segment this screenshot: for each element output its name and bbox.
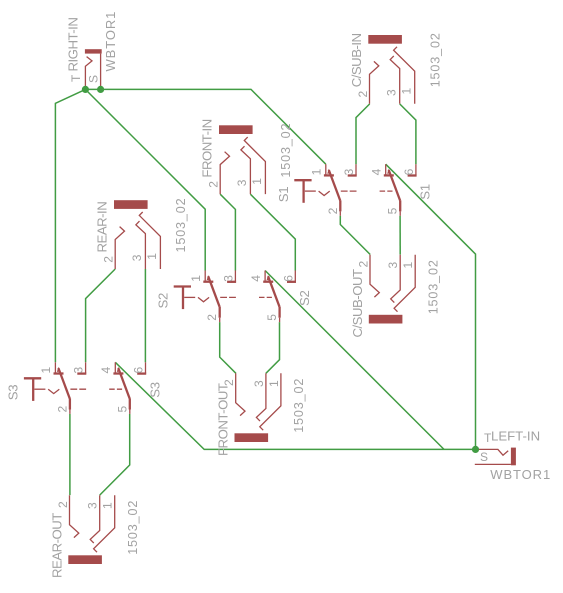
X-FRONT-OUT pin 3 (256, 373, 266, 421)
svg-text:2: 2 (356, 261, 370, 268)
wire: S1 pin 2 to C/SUB-OUT pin 2 (340, 216, 370, 255)
svg-text:1: 1 (250, 178, 264, 185)
svg-text:1: 1 (267, 380, 281, 387)
svg-text:T: T (69, 74, 83, 82)
connector WBTOR1 (LEFT-IN) body bar (511, 448, 516, 466)
svg-text:3: 3 (72, 367, 86, 374)
switch S2 pin 4 (264, 271, 266, 281)
X-FRONT-IN pin 2 (220, 152, 229, 194)
wire: S2 pin 5 to FRONT-OUT pin 3 (266, 322, 280, 373)
switch S1 pin 6 (415, 164, 417, 175)
svg-text:FRONT-IN: FRONT-IN (200, 119, 215, 177)
svg-text:6: 6 (402, 168, 416, 175)
X-CSUB-IN pin 1 (394, 47, 415, 104)
connector X-REAR-OUT (REAR-OUT) body bar (68, 555, 102, 564)
svg-text:T: T (484, 431, 492, 445)
wire: RIGHT-IN bus to S1 pin 1 (horizontal then diagonal) (85, 89, 325, 164)
svg-text:2: 2 (207, 181, 221, 188)
X-FRONT-IN pin 1 (244, 137, 265, 194)
X-FRONT-OUT pin 2 (236, 373, 245, 415)
wire: C/SUB-IN pin 2 to S1 pin 3 (356, 104, 370, 164)
connector X-FRONT-OUT (FRONT-OUT) body bar (235, 433, 269, 442)
svg-text:1503_02: 1503_02 (292, 378, 306, 433)
svg-text:4: 4 (99, 367, 113, 374)
switch S1 lever (1-2) (329, 170, 340, 201)
switch S1 pin 3 (355, 164, 357, 175)
svg-text:2: 2 (102, 256, 116, 263)
svg-text:1: 1 (401, 262, 415, 269)
switch S2 pin 2 (pole) (219, 307, 221, 318)
wire: S1 pin 4 to LEFT-IN junction (386, 164, 476, 449)
svg-text:2: 2 (56, 501, 70, 508)
svg-text:S2: S2 (155, 293, 170, 309)
RIGHT-IN pin T contact (85, 57, 92, 90)
switch S3 actuator T bar (24, 377, 41, 379)
switch S2 actuator T bar (174, 285, 191, 287)
wire: RIGHT-IN to S2 pin 1 (85, 89, 205, 270)
switch S1 pin 5 (pole) (399, 200, 401, 211)
X-CSUB-OUT pin 1 (394, 255, 415, 312)
svg-text:4: 4 (369, 168, 383, 175)
X-REAR-OUT pin 1 (94, 495, 115, 552)
svg-text:RIGHT-IN: RIGHT-IN (66, 18, 81, 72)
wire: S3 pin 4 to LEFT-IN junction (diagonal + horizontal) (115, 362, 475, 449)
svg-text:S1: S1 (418, 184, 433, 200)
switch S3 pin 5 (pole) (129, 399, 131, 410)
X-CSUB-IN pin 2 (370, 61, 379, 103)
svg-text:6: 6 (132, 367, 146, 374)
svg-text:5: 5 (115, 406, 129, 413)
svg-text:C/SUB-OUT: C/SUB-OUT (350, 269, 365, 337)
X-CSUB-OUT pin 2 (370, 255, 379, 297)
svg-text:1503_02: 1503_02 (126, 500, 140, 555)
wire: RIGHT-IN to S3 pin 1 (55, 89, 85, 362)
svg-text:3: 3 (386, 262, 400, 269)
switch S3 pin 4 (114, 362, 116, 372)
svg-text:REAR-OUT: REAR-OUT (50, 513, 65, 578)
svg-text:S3: S3 (147, 382, 162, 398)
junction dot at RIGHT-IN T (82, 86, 89, 93)
X-FRONT-OUT pin 1 (260, 373, 281, 430)
switch S3 pin 3 (85, 362, 87, 373)
X-CSUB-IN pin 3 (390, 56, 400, 104)
svg-text:WBTOR1: WBTOR1 (103, 11, 118, 72)
connector X-CSUB-OUT (C/SUB-OUT) body bar (369, 315, 403, 324)
svg-text:2: 2 (55, 406, 69, 413)
svg-text:6: 6 (281, 275, 295, 282)
switch S3 coupling link (dashed) (34, 388, 45, 390)
switch S1 lever (4-5) (389, 170, 400, 201)
svg-text:1503_02: 1503_02 (279, 123, 293, 178)
svg-text:C/SUB-IN: C/SUB-IN (349, 33, 364, 87)
svg-text:WBTOR1: WBTOR1 (490, 467, 551, 482)
switch S1 pin 1 (325, 164, 327, 174)
switch S3 lever (1-2) (58, 368, 69, 399)
svg-text:S: S (480, 450, 488, 464)
svg-text:REAR-IN: REAR-IN (95, 202, 110, 253)
wire: S3 pin 2 to REAR-OUT pin 2 (69, 414, 71, 495)
connector WBTOR1 (RIGHT-IN) body bar (85, 49, 102, 53)
RIGHT-IN pin S (100, 54, 102, 90)
connector X-FRONT-IN (FRONT-IN) body bar (219, 125, 253, 134)
switch S3 pin 6 (145, 362, 147, 373)
svg-text:S2: S2 (297, 290, 312, 306)
svg-text:3: 3 (235, 179, 249, 186)
svg-text:S3: S3 (6, 385, 21, 401)
X-REAR-OUT pin 2 (70, 495, 79, 537)
X-REAR-IN pin 1 (139, 212, 160, 269)
wire: S3 pin 5 to REAR-OUT pin 3 (100, 414, 130, 495)
wire: FRONT-IN pin 2 to S2 pin 3 (220, 194, 235, 270)
wire: REAR-IN pin 2 to S3 pin 3 (86, 269, 116, 362)
svg-text:1: 1 (310, 168, 324, 175)
LEFT-IN pin T contact (476, 449, 508, 455)
X-FRONT-IN pin 3 (241, 146, 251, 194)
switch S2 pin 3 (234, 271, 236, 282)
svg-text:LEFT-IN: LEFT-IN (491, 429, 540, 444)
wire: FRONT-IN pin 3 to S2 pin 6 (250, 194, 295, 270)
svg-text:1: 1 (145, 253, 159, 260)
X-REAR-OUT pin 3 (90, 495, 100, 543)
connector X-CSUB-IN (C/SUB-IN) body bar (368, 35, 402, 44)
junction dot at RIGHT-IN S (97, 86, 104, 93)
switch S2 pin 1 (204, 271, 206, 281)
wire: C/SUB-IN pin 3 to S1 pin 6 (400, 104, 416, 164)
svg-text:3: 3 (86, 502, 100, 509)
svg-text:1: 1 (39, 367, 53, 374)
switch S1 actuator T bar (294, 179, 311, 181)
svg-text:1: 1 (400, 88, 414, 95)
svg-text:FRONT-OUT: FRONT-OUT (216, 383, 231, 456)
junction dot at LEFT-IN (472, 446, 479, 453)
wire: S2 pin 4 to LEFT-IN wire (diagonal) (265, 271, 444, 450)
svg-text:2: 2 (205, 314, 219, 321)
LEFT-IN pin S (475, 463, 511, 465)
svg-text:2: 2 (326, 207, 340, 214)
switch S3 lever (4-5) (118, 368, 129, 399)
switch S2 pin 5 (pole) (278, 307, 280, 318)
svg-text:3: 3 (222, 275, 236, 282)
svg-text:2: 2 (222, 379, 236, 386)
svg-text:1503_02: 1503_02 (174, 198, 188, 253)
X-CSUB-OUT pin 3 (391, 255, 401, 303)
switch S3 pin 1 (54, 362, 56, 372)
svg-text:3: 3 (385, 89, 399, 96)
svg-text:3: 3 (342, 168, 356, 175)
switch S2 coupling link (dashed) (184, 296, 195, 298)
switch S2 lever (4-5) (268, 276, 279, 307)
svg-text:S: S (87, 75, 101, 83)
svg-text:5: 5 (386, 207, 400, 214)
svg-text:3: 3 (252, 380, 266, 387)
svg-text:1: 1 (189, 275, 203, 282)
svg-text:1: 1 (101, 502, 115, 509)
svg-text:5: 5 (265, 314, 279, 321)
switch S3 pin 2 (pole) (69, 399, 71, 410)
svg-text:2: 2 (356, 91, 370, 98)
svg-text:1503_02: 1503_02 (428, 32, 442, 87)
svg-text:3: 3 (130, 254, 144, 261)
wire: REAR-IN pin 3 to S3 pin 6 (144, 269, 146, 362)
connector X-REAR-IN (REAR-IN) body bar (114, 200, 148, 209)
switch S2 lever (1-2) (208, 276, 219, 307)
svg-text:S1: S1 (276, 187, 291, 203)
switch S2 pin 6 (294, 271, 296, 282)
wire: S1 pin 5 to C/SUB-OUT pin 3 (399, 216, 401, 255)
switch S1 pin 4 (385, 164, 387, 174)
X-REAR-IN pin 2 (115, 227, 124, 269)
X-REAR-IN pin 3 (136, 221, 146, 269)
svg-text:4: 4 (249, 275, 263, 282)
svg-text:1503_02: 1503_02 (426, 259, 440, 314)
switch S1 coupling link (dashed) (305, 190, 316, 192)
wire: S2 pin 2 to FRONT-OUT pin 2 (220, 322, 236, 373)
switch S1 pin 2 (pole) (339, 200, 341, 211)
